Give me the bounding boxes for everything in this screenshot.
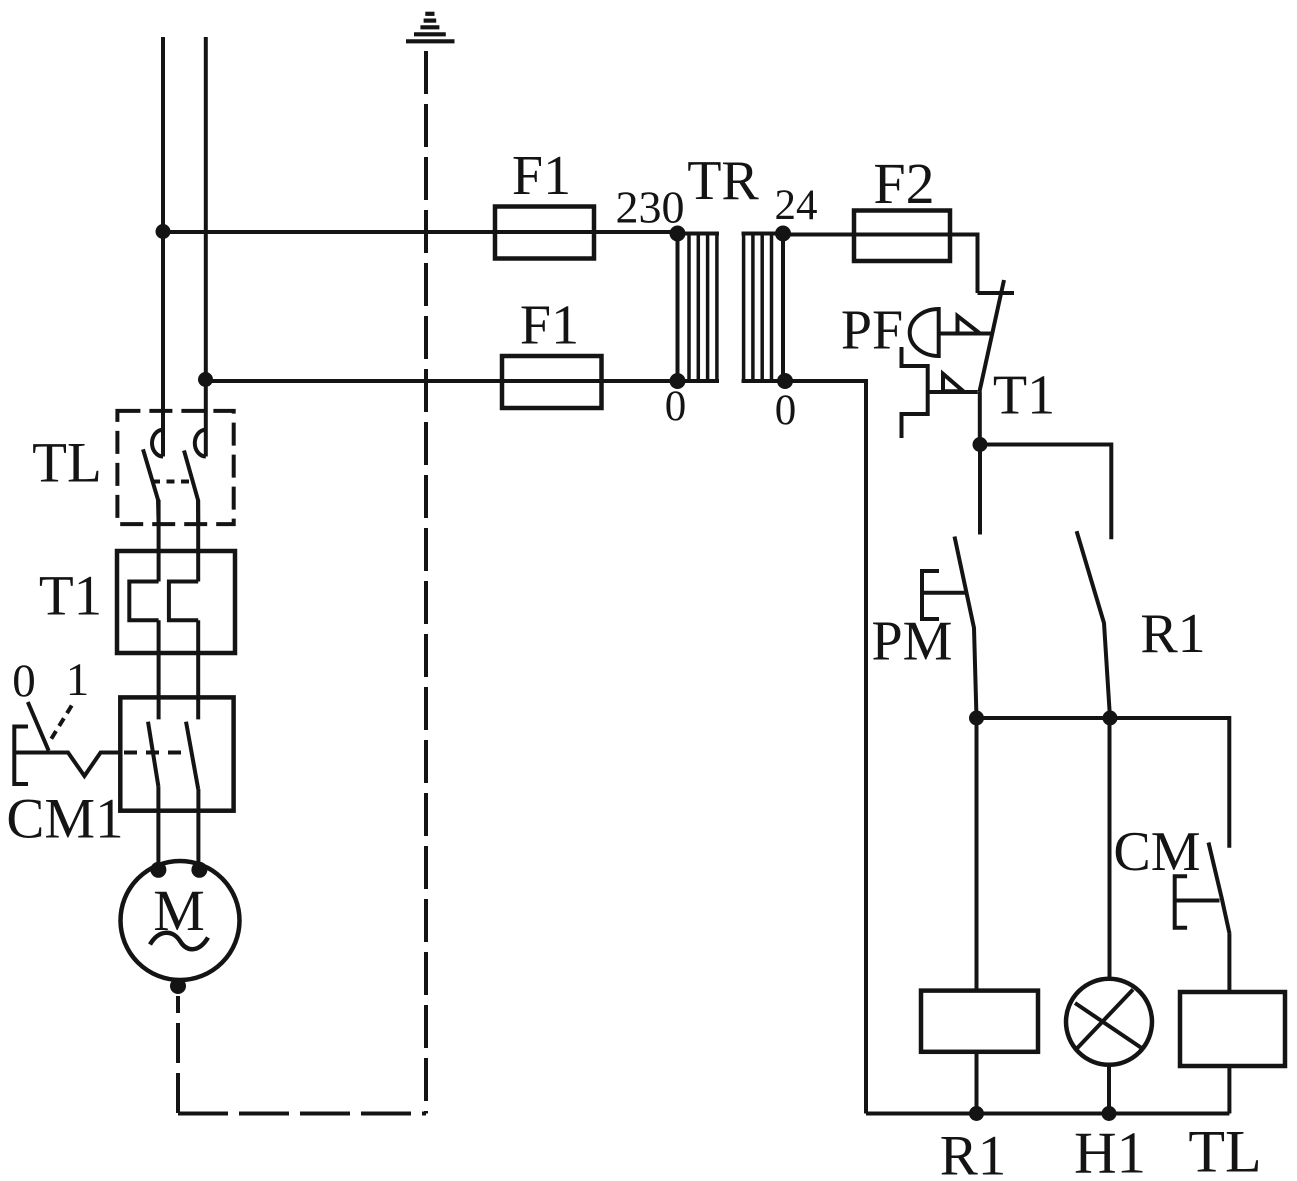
link with spring notch xyxy=(14,753,120,777)
node T1 output xyxy=(973,437,988,452)
contact TL pole 1 hook xyxy=(152,430,163,457)
svg-text:TL: TL xyxy=(32,432,102,495)
PM pushbutton actuator xyxy=(922,571,939,619)
overload T1 heater left xyxy=(129,582,158,621)
fuse F1 (lower) xyxy=(502,356,602,408)
contact CM1 pole 1 blade xyxy=(148,722,158,787)
fuse F1 (upper) xyxy=(495,207,594,259)
transformer TR xyxy=(616,150,818,434)
node junction L2 xyxy=(198,372,213,387)
svg-text:PF: PF xyxy=(841,300,903,362)
node motor terminal bottom xyxy=(170,978,186,994)
CM pushbutton actuator xyxy=(1175,876,1187,928)
wire node to PM xyxy=(978,445,982,535)
contact TL pole 2 hook xyxy=(195,430,206,457)
wire CM1 to motor right xyxy=(196,789,200,870)
switch TL (door limit switch, dashed enclosure) xyxy=(117,411,233,524)
PF link arrow 2 xyxy=(943,374,963,391)
node 0 primary terminal xyxy=(670,373,686,389)
wire top rail to R1 branch xyxy=(980,445,1111,540)
wire CM to TL coil xyxy=(1227,934,1231,992)
svg-text:24: 24 xyxy=(775,182,818,229)
PF link arrow 1 xyxy=(958,316,981,334)
motor AC tilde xyxy=(150,933,208,949)
wire dashed motor to earth xyxy=(176,996,180,1114)
svg-text:F2: F2 xyxy=(873,151,934,216)
CM actuator link xyxy=(1175,899,1220,903)
PF link2 to blade xyxy=(928,390,978,394)
svg-text:0: 0 xyxy=(12,655,36,707)
CM1 mechanical link dashed xyxy=(124,751,191,755)
pushbutton PF mushroom head xyxy=(910,309,939,356)
wire 24V to F2 xyxy=(783,233,950,237)
wire TL coil to rail xyxy=(1227,1066,1231,1114)
motor M1 xyxy=(121,861,240,980)
svg-text:230: 230 xyxy=(616,182,685,233)
wire L1 phase vertical xyxy=(161,37,165,457)
contact TL pole 1 blade xyxy=(143,449,159,524)
fuse F2 xyxy=(854,211,950,262)
lever to 0 solid xyxy=(28,702,49,751)
coil TL xyxy=(1180,992,1285,1066)
wire middle rail xyxy=(977,718,1230,848)
node rail H1 xyxy=(1102,1106,1117,1121)
lever to 1 dashed xyxy=(50,706,72,742)
lamp H1 xyxy=(1066,979,1152,1065)
svg-text:R1: R1 xyxy=(940,1125,1007,1181)
wire F2 to T1 contact xyxy=(948,235,978,294)
svg-text:T1: T1 xyxy=(993,365,1055,427)
wire T1 blade to node xyxy=(978,392,982,445)
contact PM blade xyxy=(955,537,977,719)
selector switch 0/1 actuator xyxy=(12,654,120,784)
wire bottom rail xyxy=(866,1112,1229,1116)
handle bracket xyxy=(14,727,28,785)
lamp H1 cross xyxy=(1075,1003,1143,1049)
node 24 terminal xyxy=(775,226,791,242)
node 0 secondary terminal xyxy=(777,373,793,389)
contact CM blade xyxy=(1209,843,1230,935)
svg-text:PM: PM xyxy=(872,611,953,673)
wire secondary 0 down xyxy=(785,381,866,1114)
wire to F1 upper xyxy=(163,230,678,234)
ground earth symbol xyxy=(406,14,455,42)
svg-text:0: 0 xyxy=(665,383,687,430)
svg-text:TR: TR xyxy=(687,150,759,212)
wire dashed earth vertical xyxy=(424,51,428,1114)
node junction L1 xyxy=(156,224,171,239)
svg-text:CM: CM xyxy=(1113,821,1200,883)
wire T1 to CM1 left xyxy=(157,620,161,719)
node motor terminal right xyxy=(191,862,207,878)
wire CM1 to motor left xyxy=(156,787,160,870)
secondary winding xyxy=(742,232,786,236)
svg-text:H1: H1 xyxy=(1074,1120,1146,1181)
svg-text:R1: R1 xyxy=(1140,603,1205,665)
svg-text:CM1: CM1 xyxy=(6,788,123,851)
node 230 terminal xyxy=(670,226,686,242)
wire to F1 lower xyxy=(206,379,678,383)
svg-text:F1: F1 xyxy=(512,145,571,207)
node R1 bottom xyxy=(1103,711,1118,726)
wire TL to T1 left xyxy=(157,500,161,582)
node rail R1 xyxy=(969,1106,984,1121)
overload relay T1 box xyxy=(117,551,235,653)
TL mechanical link dashed xyxy=(152,480,192,484)
PF link to contact xyxy=(939,332,991,336)
svg-text:1: 1 xyxy=(66,654,90,706)
wire PM node to R1 coil xyxy=(975,718,979,991)
PF linkage staircase xyxy=(902,347,928,438)
contact T1 fixed terminal xyxy=(978,291,1015,295)
svg-text:F1: F1 xyxy=(520,295,579,357)
wire R1 node to H1 xyxy=(1108,718,1112,979)
wire L2 phase vertical xyxy=(204,37,208,457)
wire dashed earth bottom horizontal xyxy=(178,1112,426,1116)
contact CM1 pole 2 blade xyxy=(186,722,198,789)
wire H1 to rail xyxy=(1107,1065,1111,1114)
svg-text:0: 0 xyxy=(775,387,797,434)
node PM bottom xyxy=(969,711,984,726)
wire T1 to CM1 right xyxy=(196,620,200,719)
wire R1 coil to rail xyxy=(975,1052,979,1114)
overload T1 heater right xyxy=(169,582,198,621)
wire TL to T1 right xyxy=(196,500,200,582)
primary winding xyxy=(676,232,720,236)
svg-text:T1: T1 xyxy=(39,565,102,628)
node motor terminal left xyxy=(150,862,166,878)
contactor CM1 box xyxy=(120,697,233,810)
contact T1 blade xyxy=(980,280,1005,392)
PM actuator link xyxy=(922,591,966,595)
contact R1 blade xyxy=(1077,531,1110,718)
contact TL pole 2 blade xyxy=(184,451,198,525)
svg-text:TL: TL xyxy=(1188,1119,1261,1181)
coil R1 xyxy=(921,991,1038,1052)
